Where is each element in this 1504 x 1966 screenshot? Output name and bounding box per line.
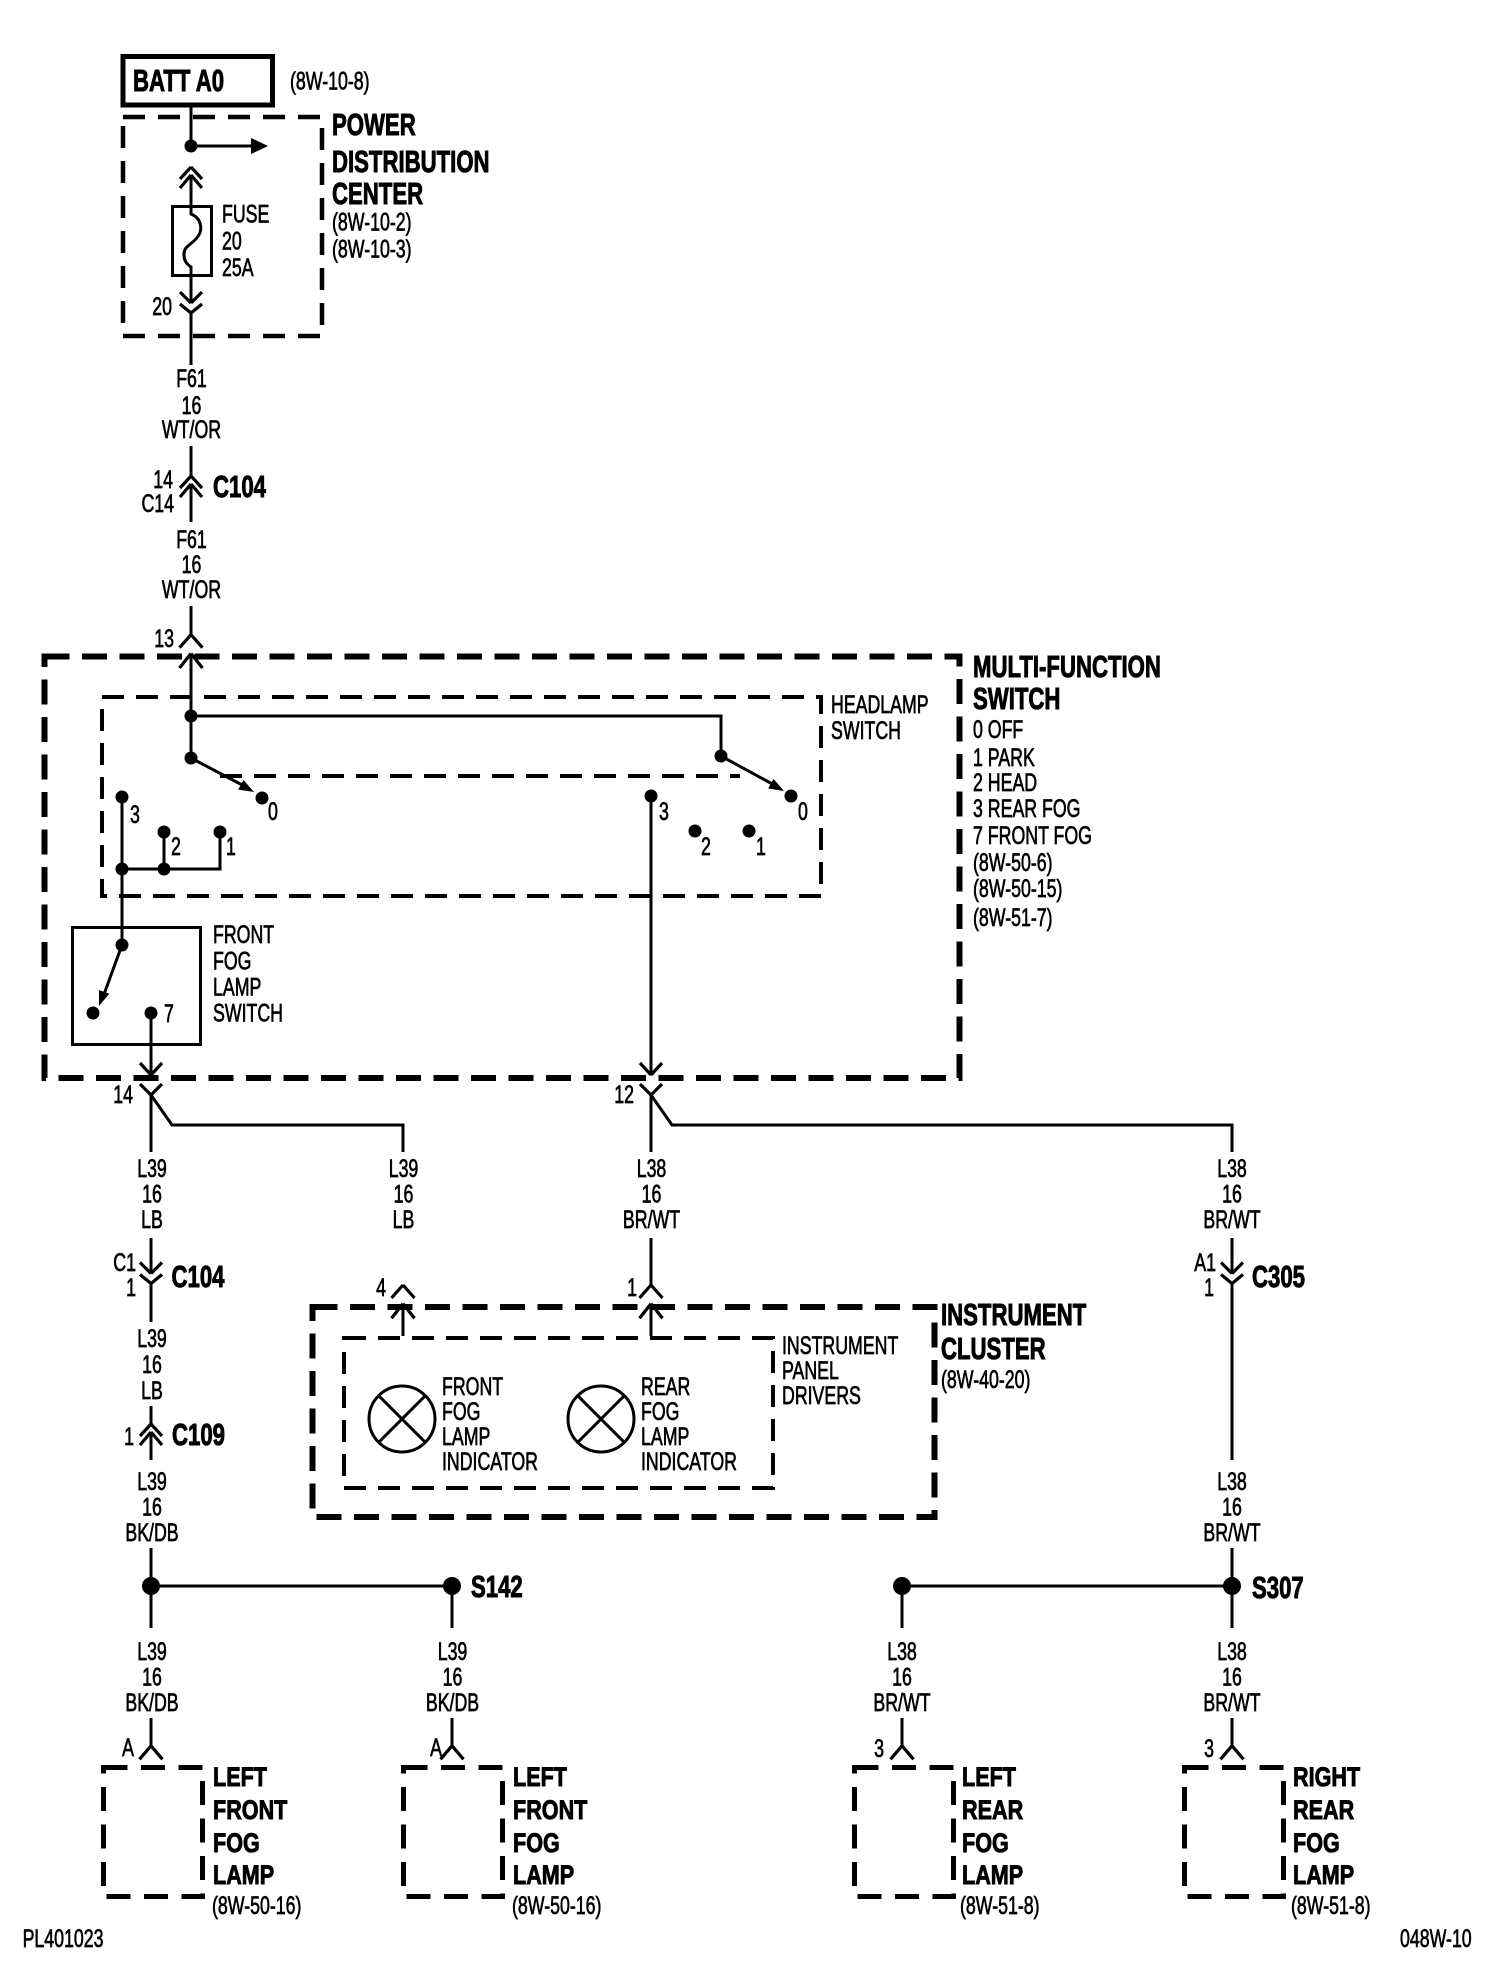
connector instrument cluster pin 1 [640,1285,663,1318]
wire [150,1718,153,1746]
node at PDC feed [185,140,198,153]
svg-text:1: 1 [124,1422,134,1451]
splice S142 [151,1585,452,1588]
instrument cluster outer dashed box [313,1307,935,1517]
wire contact 7 to pin 14 [150,1013,153,1075]
svg-text:S307: S307 [1252,1570,1304,1605]
battery feed box BATT A0 [123,57,273,106]
svg-text:1: 1 [126,1273,136,1302]
svg-text:LEFT: LEFT [213,1763,267,1793]
wire into switch [190,654,193,717]
wire inside cluster pin1 [650,1304,653,1336]
svg-text:RIGHT: RIGHT [1293,1763,1360,1793]
rear fog lamp indicator [568,1386,634,1452]
svg-text:16: 16 [142,1350,162,1379]
wire BATT A0 to node [190,107,193,146]
svg-text:POWER: POWER [332,107,416,142]
wire contact 2 stub [163,832,166,869]
wire [1231,1718,1234,1746]
svg-text:2: 2 [701,832,711,861]
connector multi-function switch pin 13 [180,635,203,668]
wire common bus [191,716,721,756]
svg-text:FRONT: FRONT [513,1796,587,1826]
wire PDC to C104 [190,313,193,365]
wire bus to front fog switch [121,869,124,945]
right contact 0 [785,790,798,803]
connector multi-function switch pin 14 [140,1063,162,1095]
wire contact bus horizontal [122,832,220,869]
svg-text:20: 20 [222,226,242,255]
svg-text:048W-10: 048W-10 [1400,1924,1472,1953]
svg-text:(8W-50-6): (8W-50-6) [973,848,1053,877]
left rear fog lamp box [855,1768,954,1897]
svg-text:LEFT: LEFT [962,1763,1016,1793]
svg-text:C104: C104 [172,1259,225,1294]
svg-text:BR/WT: BR/WT [1203,1688,1260,1717]
svg-text:(8W-50-15): (8W-50-15) [973,874,1062,903]
connector right rear fog lamp pin 3 [1221,1746,1244,1760]
svg-text:CENTER: CENTER [332,176,423,211]
multi-function switch outer dashed box [45,657,960,1079]
svg-text:1: 1 [226,832,236,861]
svg-text:L39: L39 [137,1324,167,1353]
svg-text:1: 1 [627,1273,637,1302]
right rear fog lamp box [1185,1768,1284,1897]
connector C109 pin 1 [140,1424,162,1445]
right contact 3 [645,790,658,803]
svg-text:BATT A0: BATT A0 [133,63,224,98]
headlamp switch inner dashed box [102,697,821,896]
wire left pivot [190,716,193,758]
svg-text:S142: S142 [471,1569,523,1604]
front fog switch input dot [116,939,129,952]
node bus/3 [116,863,129,876]
svg-text:LAMP: LAMP [513,1861,574,1891]
svg-text:C104: C104 [213,469,266,504]
svg-text:C305: C305 [1252,1259,1305,1294]
svg-text:FOG: FOG [213,1829,260,1859]
wire C305 to S307 [1231,1284,1234,1461]
node bus/2 [158,863,171,876]
left contact 2 [158,826,171,839]
connector fuse input [180,167,202,188]
svg-text:HEADLAMP: HEADLAMP [831,690,929,719]
connector left rear fog lamp pin 3 [891,1746,914,1760]
svg-text:REAR: REAR [962,1796,1023,1826]
svg-text:3 REAR FOG: 3 REAR FOG [973,794,1080,823]
svg-text:3: 3 [659,797,669,826]
svg-text:INSTRUMENT: INSTRUMENT [941,1297,1087,1332]
svg-text:A: A [122,1733,134,1762]
wire [150,1432,153,1460]
connector instrument cluster pin 4 [392,1285,415,1318]
svg-text:BR/WT: BR/WT [623,1205,680,1234]
svg-text:BR/WT: BR/WT [873,1688,930,1717]
svg-text:7 FRONT FOG: 7 FRONT FOG [973,821,1092,850]
svg-text:LAMP: LAMP [1293,1861,1354,1891]
svg-text:13: 13 [154,624,174,653]
wire branch to C305 [651,1095,1232,1152]
connector PDC output pin 20 [180,292,202,313]
svg-text:FOG: FOG [513,1829,560,1859]
svg-text:(8W-50-16): (8W-50-16) [512,1891,601,1920]
wire S142 to left front fog lamp 1 [150,1586,153,1628]
left contact 1 [214,826,227,839]
svg-text:(8W-40-20): (8W-40-20) [941,1365,1030,1394]
wire S142 to left front fog lamp 2 [451,1586,454,1628]
svg-text:4: 4 [376,1273,386,1302]
svg-text:(8W-51-7): (8W-51-7) [973,903,1053,932]
wire pin14 down [150,1095,153,1152]
svg-text:SWITCH: SWITCH [973,681,1060,716]
svg-text:BK/DB: BK/DB [426,1688,479,1717]
svg-text:LAMP: LAMP [962,1861,1023,1891]
svg-text:SWITCH: SWITCH [831,716,901,745]
svg-text:FOG: FOG [962,1829,1009,1859]
svg-text:(8W-10-2): (8W-10-2) [332,207,412,236]
connector left front fog lamp pin A (2) [441,1746,464,1760]
wire [150,1284,153,1323]
wire [190,446,193,476]
svg-text:CLUSTER: CLUSTER [941,1331,1046,1366]
wire [901,1718,904,1746]
right wiper pivot dot [715,750,728,763]
svg-text:3: 3 [130,800,140,829]
fuse 20 25A [173,207,212,276]
right wiper arm to position 0 [721,756,776,786]
svg-text:3: 3 [874,1734,884,1763]
svg-text:REAR: REAR [1293,1796,1354,1826]
front fog lamp indicator [369,1386,435,1452]
svg-text:F61: F61 [176,364,207,393]
svg-text:(8W-10-3): (8W-10-3) [332,234,412,263]
wire rear fog feed down to pin 12 [650,796,653,1075]
svg-text:0: 0 [268,797,278,826]
wire S307 to right rear fog lamp [1231,1586,1234,1628]
svg-text:(8W-51-8): (8W-51-8) [960,1891,1040,1920]
svg-text:DRIVERS: DRIVERS [782,1381,861,1410]
feed arrow to other circuits [191,145,252,148]
svg-text:LB: LB [393,1205,415,1234]
svg-text:BK/DB: BK/DB [125,1518,178,1547]
wire [451,1718,454,1746]
svg-text:MULTI-FUNCTION: MULTI-FUNCTION [973,649,1161,684]
left contact 3 [116,791,129,804]
front fog lamp switch box [73,928,201,1045]
wire branch to instrument cluster pin 4 [151,1095,403,1152]
svg-text:2: 2 [171,832,181,861]
svg-text:14: 14 [113,1080,133,1109]
connector multi-function switch pin 12 [640,1063,662,1095]
svg-text:LB: LB [141,1376,163,1405]
svg-text:LAMP: LAMP [213,1861,274,1891]
svg-text:FOG: FOG [213,946,251,975]
connector C104 pin 14/C14 [180,476,202,497]
svg-text:BR/WT: BR/WT [1203,1518,1260,1547]
svg-text:FUSE: FUSE [222,199,269,228]
wire [150,1406,153,1424]
left wiper arm to position 0 [191,758,246,787]
wire [150,1238,153,1274]
svg-text:BK/DB: BK/DB [125,1688,178,1717]
svg-text:BR/WT: BR/WT [1203,1205,1260,1234]
svg-text:12: 12 [614,1080,634,1109]
svg-text:1: 1 [756,832,766,861]
wire to C305 [1231,1238,1234,1274]
svg-text:WT/OR: WT/OR [162,575,221,604]
svg-text:(8W-50-16): (8W-50-16) [212,1891,301,1920]
svg-text:(8W-10-8): (8W-10-8) [290,66,370,95]
splice S307 [902,1585,1232,1588]
wire [1231,1548,1234,1586]
right contact 1 [743,825,756,838]
connector C104 pin C1/1 [140,1263,162,1284]
left wiper pivot dot [185,752,198,765]
wire [190,606,193,635]
left contact 0 [256,792,269,805]
wire S307 to left rear fog lamp [901,1586,904,1628]
connector left front fog lamp pin A [140,1746,163,1760]
left front fog lamp box 2 [404,1768,503,1897]
svg-text:C14: C14 [141,489,174,518]
svg-text:DISTRIBUTION: DISTRIBUTION [332,144,490,179]
power distribution center dashed box [123,117,322,336]
svg-text:LEFT: LEFT [513,1763,567,1793]
wire pin12 down [650,1095,653,1152]
front fog switch open contact [87,1007,100,1020]
svg-text:1: 1 [1204,1273,1214,1302]
svg-text:SWITCH: SWITCH [213,998,283,1027]
svg-text:20: 20 [152,292,172,321]
svg-text:FRONT: FRONT [213,1796,287,1826]
svg-text:FRONT: FRONT [213,920,274,949]
svg-text:A: A [430,1733,442,1762]
svg-text:3: 3 [1204,1734,1214,1763]
wire to fuse [190,175,193,205]
svg-text:(8W-51-8): (8W-51-8) [1291,1891,1371,1920]
wire [150,1548,153,1586]
connector C305 pin A1/1 [1221,1263,1243,1284]
svg-text:25A: 25A [222,253,254,282]
wire to cluster pin 1 [650,1238,653,1285]
svg-text:FOG: FOG [1293,1829,1340,1859]
wire contact 3 bus [121,797,124,869]
node headlamp switch common [185,710,198,723]
svg-text:0: 0 [798,797,808,826]
svg-text:C109: C109 [172,1417,225,1452]
svg-text:INDICATOR: INDICATOR [641,1447,737,1476]
svg-text:LAMP: LAMP [213,972,261,1001]
wire [190,484,193,522]
left front fog lamp box 1 [104,1768,203,1897]
front fog switch wiper (open) [103,945,122,997]
svg-text:INDICATOR: INDICATOR [442,1447,538,1476]
instrument panel drivers inner dashed box [344,1338,773,1488]
right contact 2 [689,825,702,838]
svg-text:LB: LB [141,1205,163,1234]
svg-text:0 OFF: 0 OFF [973,715,1023,744]
svg-text:7: 7 [164,999,174,1028]
wire fuse to PDC pin 20 [190,277,193,303]
mechanical coupling dashed line between wipers [220,774,740,778]
front fog switch contact 7 [145,1007,158,1020]
svg-text:2 HEAD: 2 HEAD [973,768,1037,797]
svg-text:WT/OR: WT/OR [162,415,221,444]
svg-text:PL401023: PL401023 [23,1924,104,1953]
